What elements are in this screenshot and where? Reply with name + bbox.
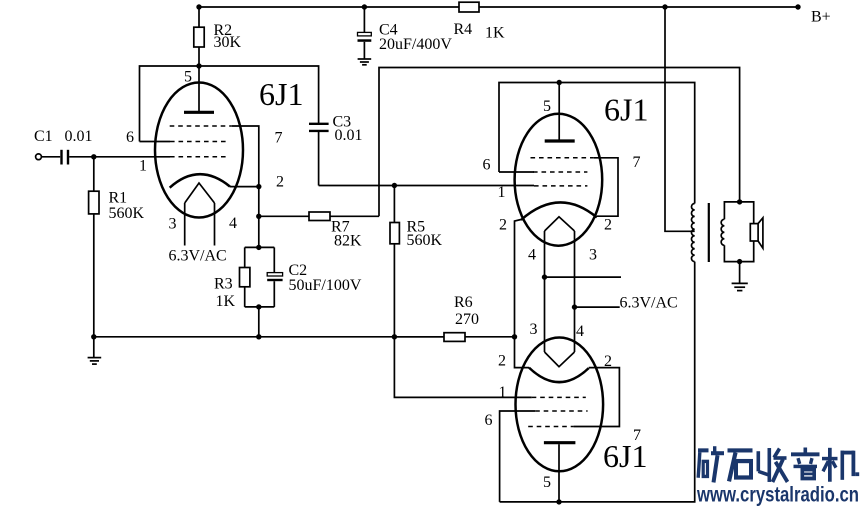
watermark character yin <box>791 448 820 479</box>
svg-text:6J1: 6J1 <box>603 438 647 474</box>
wire heater bus left vertical <box>544 231 546 352</box>
resistor R5 <box>390 223 399 244</box>
svg-text:1: 1 <box>139 158 147 175</box>
svg-text:1K: 1K <box>485 25 505 42</box>
wire C4 bottom lead <box>363 42 365 59</box>
wire secondary top rail <box>724 202 753 224</box>
svg-text:6J1: 6J1 <box>604 92 648 128</box>
node ground rail R5 junction <box>392 334 397 339</box>
wire C1 to tube1 grid <box>69 156 170 158</box>
svg-text:0.01: 0.01 <box>335 127 363 144</box>
wire feedback line top <box>379 68 740 217</box>
wire R1 top lead <box>93 157 95 191</box>
tube V3 cathode arc <box>529 368 589 383</box>
wire tube2 pin5 lead <box>558 83 560 142</box>
speaker SP <box>750 224 758 241</box>
svg-text:6: 6 <box>485 412 493 429</box>
svg-text:5: 5 <box>184 69 192 86</box>
node heater tap upper junction <box>542 274 547 279</box>
tube V2 heater <box>545 217 575 231</box>
svg-text:www.crystalradio.cn: www.crystalradio.cn <box>696 484 859 507</box>
svg-text:2: 2 <box>499 217 507 234</box>
wire ground rail <box>94 336 444 338</box>
node C4 rail junction <box>362 4 367 9</box>
tube V3 plate bar <box>544 441 576 444</box>
wire input to C1 <box>41 156 60 158</box>
tube V2 grid row pin7 <box>531 157 594 159</box>
svg-text:7: 7 <box>633 154 641 171</box>
tube V2 cathode arc <box>521 202 597 220</box>
svg-text:6.3V/AC: 6.3V/AC <box>169 248 227 265</box>
watermark character kuang <box>698 446 724 482</box>
wire tube1 heater leg left <box>184 203 186 246</box>
node B+ drop junction <box>662 4 667 9</box>
ground under speaker <box>732 282 748 284</box>
capacitor C4 <box>358 32 372 36</box>
wire R6 left lead from ground rail <box>394 336 444 338</box>
wire R3 bottom lead <box>244 287 246 307</box>
tube V3 6J1 envelope <box>516 338 604 472</box>
ground under C4 <box>358 58 372 60</box>
wire R5 top lead <box>393 186 395 223</box>
wire R7 left lead <box>259 215 309 217</box>
transformer T1 core <box>708 203 710 262</box>
svg-text:4: 4 <box>576 323 584 340</box>
tube V3 grid row pin7 <box>528 426 573 428</box>
node R3 C2 bottom junction <box>256 304 261 309</box>
node tube2 plate junction <box>557 80 562 85</box>
tube V2 grid row pin1 <box>534 185 587 187</box>
tube V2 6J1 envelope <box>515 114 603 246</box>
svg-text:1K: 1K <box>216 293 236 310</box>
svg-text:6: 6 <box>126 129 134 146</box>
node ground rail cathode junction <box>256 334 261 339</box>
wire B+ to output transformer center tap <box>665 7 695 231</box>
wire C3 bottom lead <box>318 131 320 185</box>
node R7 tap junction <box>256 214 261 219</box>
svg-text:1: 1 <box>498 184 506 201</box>
svg-text:2: 2 <box>604 353 612 370</box>
svg-text:1: 1 <box>499 384 507 401</box>
node R6 cathode bus junction <box>512 334 517 339</box>
svg-text:2: 2 <box>276 174 284 191</box>
capacitor C2 <box>267 273 282 276</box>
svg-text:82K: 82K <box>334 233 362 250</box>
svg-text:3: 3 <box>530 321 538 338</box>
svg-text:6.3V/AC: 6.3V/AC <box>620 295 678 312</box>
wire tube3 grid drop <box>394 337 531 398</box>
tube V1 heater <box>185 183 215 203</box>
tube V1 grid row pin7 <box>170 125 232 127</box>
wire tube2 pin7 bracket <box>594 158 618 216</box>
tube V3 grid row pin6 <box>535 410 587 412</box>
resistor R1 <box>89 191 99 214</box>
svg-text:30K: 30K <box>214 34 242 51</box>
tube V1 6J1 envelope <box>155 83 243 218</box>
wire R3 C2 top bar <box>245 246 275 248</box>
tube V1 grid row pin6 <box>170 141 227 143</box>
node heater tap lower junction <box>572 304 577 309</box>
svg-text:50uF/100V: 50uF/100V <box>289 277 362 294</box>
svg-text:560K: 560K <box>109 205 145 222</box>
wire B+ top rail right segment <box>479 6 798 8</box>
wire tube2 plate top link <box>499 83 695 204</box>
node B+ terminal <box>795 4 800 9</box>
resistor R4 <box>459 2 479 12</box>
wire heater bus right vertical <box>574 231 576 352</box>
svg-text:3: 3 <box>589 247 597 264</box>
wire R1 bottom lead <box>93 214 95 337</box>
svg-text:2: 2 <box>604 217 612 234</box>
watermark character shi <box>728 448 753 481</box>
wire tube1 pin6 lead <box>140 141 171 143</box>
svg-text:R4: R4 <box>454 21 473 38</box>
wire tube3 cathode left rise <box>515 337 530 368</box>
node R2 bottom anode junction <box>196 63 201 68</box>
tube V2 grid row pin6 <box>533 171 587 173</box>
wire cathode pair to ground rail <box>258 307 260 337</box>
svg-text:3: 3 <box>169 216 177 233</box>
wire tube3 pin6 lead <box>500 411 536 502</box>
tube V3 heater <box>545 352 575 367</box>
resistor R7 <box>309 212 330 221</box>
wire R5 bottom lead <box>393 244 395 337</box>
node tube1 cathode pin2 junction <box>256 184 261 189</box>
svg-text:R6: R6 <box>454 294 473 311</box>
capacitor C1 <box>60 150 62 165</box>
wire R2 top lead <box>198 7 200 27</box>
tube V3 grid row pin1 <box>532 396 586 398</box>
svg-text:C1: C1 <box>34 128 53 145</box>
svg-text:0.01: 0.01 <box>65 128 93 145</box>
wire tube3 bottom anode rail <box>500 262 695 502</box>
watermark character ji <box>822 448 859 482</box>
svg-text:5: 5 <box>543 474 551 491</box>
transformer T1 primary winding <box>691 204 694 262</box>
wire secondary ground stub <box>739 262 741 283</box>
svg-text:4: 4 <box>528 247 536 264</box>
tube V1 cathode arc <box>170 174 230 187</box>
wire tube3 pin5 lead <box>558 444 560 502</box>
ground symbol main <box>93 337 95 358</box>
svg-text:2: 2 <box>498 353 506 370</box>
wire R3 top lead <box>244 247 246 267</box>
node tube3 plate rail junction <box>556 499 561 504</box>
tube V1 plate lead pin5 <box>198 66 200 111</box>
svg-text:6: 6 <box>483 157 491 174</box>
wire tube1 pin7 bracket <box>232 126 259 187</box>
wire R6 right lead <box>465 336 515 338</box>
wire tube1 cathode chain <box>230 186 259 188</box>
svg-text:5: 5 <box>543 98 551 115</box>
wire tube1 anode top link (R2 bottom to C3 top) <box>140 66 319 142</box>
wire C4 top lead <box>363 7 365 32</box>
wire coupling line C3 to tube2 grid <box>319 185 534 187</box>
tube V1 plate bar <box>184 111 214 114</box>
wire heater tap upper <box>545 276 622 278</box>
node secondary top junction <box>737 199 742 204</box>
resistor R2 <box>194 27 204 47</box>
node R5 grid line junction <box>392 183 397 188</box>
watermark character shou <box>757 448 788 482</box>
wire heater tap lower 6.3V/AC <box>575 306 620 308</box>
wire C2 top lead <box>273 247 275 272</box>
wire R2 bottom lead <box>198 47 200 66</box>
svg-text:20uF/400V: 20uF/400V <box>379 36 452 53</box>
svg-text:7: 7 <box>275 130 283 147</box>
wire R3 C2 bottom bar <box>245 306 275 308</box>
node ground rail R1 junction <box>91 334 96 339</box>
tube V2 plate bar <box>545 139 575 142</box>
svg-text:6J1: 6J1 <box>259 76 303 112</box>
node R3 C2 top junction <box>256 245 261 250</box>
wire tube2 pin6 lead <box>499 171 534 173</box>
svg-text:560K: 560K <box>407 232 443 249</box>
input terminal <box>36 154 42 160</box>
node secondary bottom junction <box>737 259 742 264</box>
svg-text:R3: R3 <box>214 276 233 293</box>
wire tube2 cathode left drop <box>515 220 522 337</box>
node C1 R1 junction <box>91 154 96 159</box>
svg-text:B+: B+ <box>811 9 831 26</box>
svg-text:270: 270 <box>455 311 479 328</box>
wire C2 bottom lead <box>273 281 275 307</box>
wire tube3 pin7 bracket <box>574 368 620 427</box>
resistor R6 <box>444 333 465 342</box>
svg-text:4: 4 <box>229 215 237 232</box>
node R2 top rail junction <box>196 4 201 9</box>
capacitor C3 <box>309 123 329 125</box>
wire tube1 heater leg right <box>214 203 216 246</box>
svg-text:R1: R1 <box>109 190 128 207</box>
tube V1 grid row pin1 <box>170 156 227 158</box>
wire secondary bottom rail <box>724 241 753 262</box>
wire R7 right lead <box>330 215 379 217</box>
transformer T1 secondary winding <box>721 219 724 245</box>
wire B+ top rail left segment <box>199 6 459 8</box>
resistor R3 <box>240 268 250 287</box>
